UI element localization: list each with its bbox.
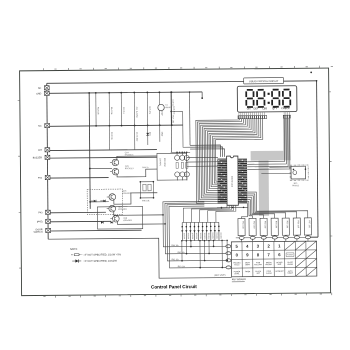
border tick marks [42,69,44,72]
wire GND rail [49,92,202,93]
wire key scan drops to row lines [190,241,192,247]
connector pin GND [44,92,49,96]
svg-text:R62 10k: R62 10k [171,260,178,262]
transistor array element bottom 2 [180,172,185,177]
connector oval key row 1 [226,245,231,248]
resistor/capacitor R14 [108,93,110,126]
gray bundle band LCD right [283,119,291,152]
connector oval key column 3 [261,237,266,240]
diode D23 key line [193,223,195,241]
diode D27 key line [209,223,211,241]
buzzer BZ1 body [291,167,305,180]
svg-text:KRC4021: KRC4021 [125,168,135,170]
gray bundle band horizontal to IC [250,151,290,161]
base resistors inside array [176,163,178,169]
buzzer element [293,171,297,175]
diode D21 key line [185,223,187,241]
svg-text:NC: NC [38,126,42,128]
node C14 mid [170,111,172,113]
svg-text:NOTE: NOTE [70,247,78,251]
transistor array element top 3 [184,156,189,161]
note resistor legend [71,254,82,256]
svg-text:C11 0.47/50: C11 0.47/50 [135,107,137,119]
transistor array element top 1 [174,156,179,161]
svg-text:1SS269: 1SS269 [182,233,184,239]
connector oval key row 2 [226,252,231,255]
wire P45 rail [50,221,111,224]
display digit 8 (2) [257,89,263,91]
option box Q27 Q28 [97,207,142,230]
wire key column connector row [235,237,317,240]
wire P41 rail [50,177,109,180]
connector pin P41 [45,176,50,180]
diode D29 key line [218,223,220,241]
svg-text:SWITCH: SWITCH [33,232,42,234]
svg-text:INT: INT [38,150,42,152]
svg-text:Control Panel Circuit: Control Panel Circuit [151,285,197,290]
connector oval key column 2 [250,237,255,240]
U1 left pin row [217,159,227,204]
svg-text:1SS269: 1SS269 [203,233,205,239]
transistor Q25 [112,169,119,176]
svg-text:C13 0.022: C13 0.022 [135,132,137,142]
svg-text:9: 9 [246,253,249,258]
resistor/capacitor R15 [146,93,148,126]
svg-text:1SS269: 1SS269 [199,233,201,239]
connector pin NC [44,124,49,128]
diode D28 key line [213,223,215,241]
wire bundle to IC top pins [190,145,220,157]
svg-text:R63 10k: R63 10k [177,267,184,269]
wire Q27/Q28 outputs [113,212,162,216]
svg-text:1SS269: 1SS269 [215,233,217,239]
wire IC to buzzer drive [269,166,291,168]
connector pin BUZZER [45,156,50,160]
junction bias bus top [88,92,90,94]
transistor Q28 [112,216,119,223]
resistor R53 key column [260,219,267,236]
svg-text:1SS269: 1SS269 [191,233,193,239]
connector oval key column 4 [272,236,277,239]
display pin header right [283,116,290,119]
junction array rail a [179,152,180,153]
U1 white speckle in pin bands [218,159,219,162]
transistor array block Q30 [157,154,187,181]
connector oval key column 6 [294,236,299,239]
svg-text:5: 5 [235,244,238,249]
resistor network box R44 R45 [140,182,153,198]
wire GND stub [201,92,203,97]
junction array rail b [183,152,184,153]
svg-text:ON: ON [246,108,250,111]
component GND lower bank [158,126,160,143]
diode D29 [110,222,112,224]
display pin header left [238,116,267,119]
transistor Q26 [109,194,116,201]
svg-text:1SS269: 1SS269 [219,233,221,239]
display colon [267,93,269,95]
diode D28 [101,222,103,224]
svg-text:4MHz: 4MHz [165,107,170,109]
svg-text:NC: NC [38,88,42,90]
keyboard matrix grid [231,242,317,278]
junction top-right corner [315,80,317,82]
wire bias to Q4 base [90,201,109,203]
svg-text:1SS269: 1SS269 [211,233,213,239]
border frame [19,68,330,296]
svg-text:6: 6 [278,253,281,258]
component R13 lower bank [108,126,110,150]
transistor array element bottom 3 [184,172,189,177]
transistor Q27 [109,206,116,213]
svg-text:(P45): (P45) [37,222,43,224]
resistor R57 key column [304,218,311,235]
svg-text:BUZZER: BUZZER [32,158,42,160]
svg-text:1SS269: 1SS269 [187,233,189,239]
svg-text:R16 4.7k: R16 4.7k [172,107,174,115]
transistor array element bottom 1 [174,172,179,177]
diode D26 key line [205,223,207,241]
wire array common top [170,152,189,154]
buzzer BZ1 shield (dash-dot) [290,165,308,180]
svg-text:PKM13: PKM13 [292,186,299,188]
svg-text:P41: P41 [38,178,43,180]
svg-text:2: 2 [267,244,270,249]
wire C14 column [170,93,173,153]
svg-text:1: 1 [278,244,281,249]
svg-text:M37450M8: M37450M8 [232,176,234,188]
resistor/capacitor R12 [94,93,96,126]
svg-text:GND: GND [160,132,162,137]
junction supply column top [188,92,190,94]
gray bundle band IC to key columns [258,161,269,216]
wire left header bus [46,84,47,240]
connector pin INT [45,148,50,152]
svg-text:R15 47k: R15 47k [148,107,150,114]
connector oval key column 7 [305,236,310,239]
wire buzzer return [261,173,291,175]
display label box LIQUID CRYSTAL DISPLAY [243,78,283,84]
wire array outputs to IC [186,157,217,159]
transistor array element top 2 [179,156,184,161]
svg-text:R61 10k: R61 10k [177,252,184,254]
junction C14 top [170,92,172,94]
component C13 lower bank [133,126,135,150]
connector pin P43 [45,211,50,215]
svg-text:4: 4 [246,244,249,249]
wire diode row bottom rail [182,240,225,242]
wire DOOR SW rail [50,230,141,233]
U1 right pin row [238,159,247,204]
resistor R56 key column [293,218,300,235]
wire bias to Q2 base [90,168,112,170]
diode D25 key line [201,223,203,241]
display digit 8 (1) [247,89,253,91]
connector oval key column 5 [283,236,288,239]
wire INT rail [49,149,156,152]
wire bus key row lines P60-P63 [163,202,226,248]
resistor R51 key column [238,219,245,236]
microcontroller U1 body [226,156,238,205]
svg-text:1SS269: 1SS269 [207,233,209,239]
svg-text:8: 8 [257,253,260,258]
wire U1 bottom rail [217,207,248,209]
connector pin (P45) [45,220,50,224]
svg-text:3: 3 [256,244,259,249]
svg-text:R46 10k: R46 10k [142,201,149,203]
wire VCC top rail [46,81,316,83]
wire NC rail [49,126,182,127]
diode D27 [103,200,105,202]
svg-text:R14 10k: R14 10k [110,107,112,114]
wire VCC right-side drop [316,81,317,237]
svg-text:KRA4302: KRA4302 [123,219,132,222]
connector oval key row 3 [226,259,231,262]
connector pin NC [44,86,49,90]
junction bias at Q4 [89,201,91,203]
diode D22 key line [189,223,191,241]
svg-text:: IF NOT SPECIFIED, 1SS269: : IF NOT SPECIFIED, 1SS269 [83,260,117,263]
wire bias bus [89,93,90,209]
svg-text:R13 10k: R13 10k [110,133,112,140]
wire Q24/Q25 collectors [117,156,157,160]
wire bus LCD common lines to IC right [246,119,284,163]
svg-text:C10 0.1: C10 0.1 [122,107,124,115]
connector oval key column 1 [239,237,244,240]
resistor/capacitor C12 [158,93,160,126]
resistor R52 key column [249,219,256,236]
wire bus LCD segment lines to IC [196,119,240,204]
node GND stub end [201,98,203,100]
resistor/capacitor C10 [120,93,122,126]
diode D24 key line [197,223,199,241]
crystal X1 [157,105,163,112]
svg-text:7: 7 [267,253,270,258]
resistor R54 key column [271,219,278,236]
svg-text:0: 0 [235,253,238,258]
display digit 8 (3) [272,89,278,91]
key POWER cell [286,253,294,257]
LCD display body [237,86,297,112]
svg-text:1SS269: 1SS269 [195,233,197,239]
note diode legend [72,260,81,262]
junction bias at Q2 [89,168,91,170]
wire Q26 emitter chain [113,193,157,204]
display digit 8 (4) [283,89,289,91]
svg-text:Q30 KRC: Q30 KRC [158,158,160,167]
resistor/capacitor C11 [133,93,135,126]
component D10 lower bank [146,126,148,146]
wire bus IC to keyboard column pull-ups [241,204,247,219]
svg-text:R60 10k: R60 10k [171,245,178,247]
wire diode row top rail [182,222,219,224]
transistor Q24 [112,160,119,167]
svg-text:: IF NOT SPECIFIED, 1/10W +5%: : IF NOT SPECIFIED, 1/10W +5% [83,254,122,257]
schematic page [19,68,331,296]
resistor R55 key column [282,218,289,235]
dashed alt-part box Q26 [87,189,122,215]
wire supply column to IC [188,92,190,145]
connector pin DOOR [45,229,50,233]
resistor/capacitor R16 [170,93,172,126]
wire DOOR SW return to keyboard [48,238,231,280]
diode D20 key line [181,223,183,241]
svg-text:P43: P43 [38,213,43,215]
diode D26 [93,200,95,202]
wire reset line to IC [171,112,190,148]
svg-text:(KEY UNIT): (KEY UNIT) [214,275,225,277]
wire BUZZER rail [50,157,157,160]
svg-text:KRA102M: KRA102M [163,158,166,167]
svg-text:KEY BOARD: KEY BOARD [232,278,246,281]
svg-text:GND: GND [36,94,41,96]
wire IC bottom feeds to diode row [183,206,227,223]
svg-text:KRA4015: KRA4015 [122,192,131,195]
connector oval key row 4 [226,266,231,269]
wire P43 rail [50,212,106,215]
wire VCC to key columns [309,237,318,239]
unused key cells (diagonals) [284,242,295,251]
diode D10 symbol [146,133,149,136]
svg-text:R12 10k: R12 10k [96,108,98,115]
